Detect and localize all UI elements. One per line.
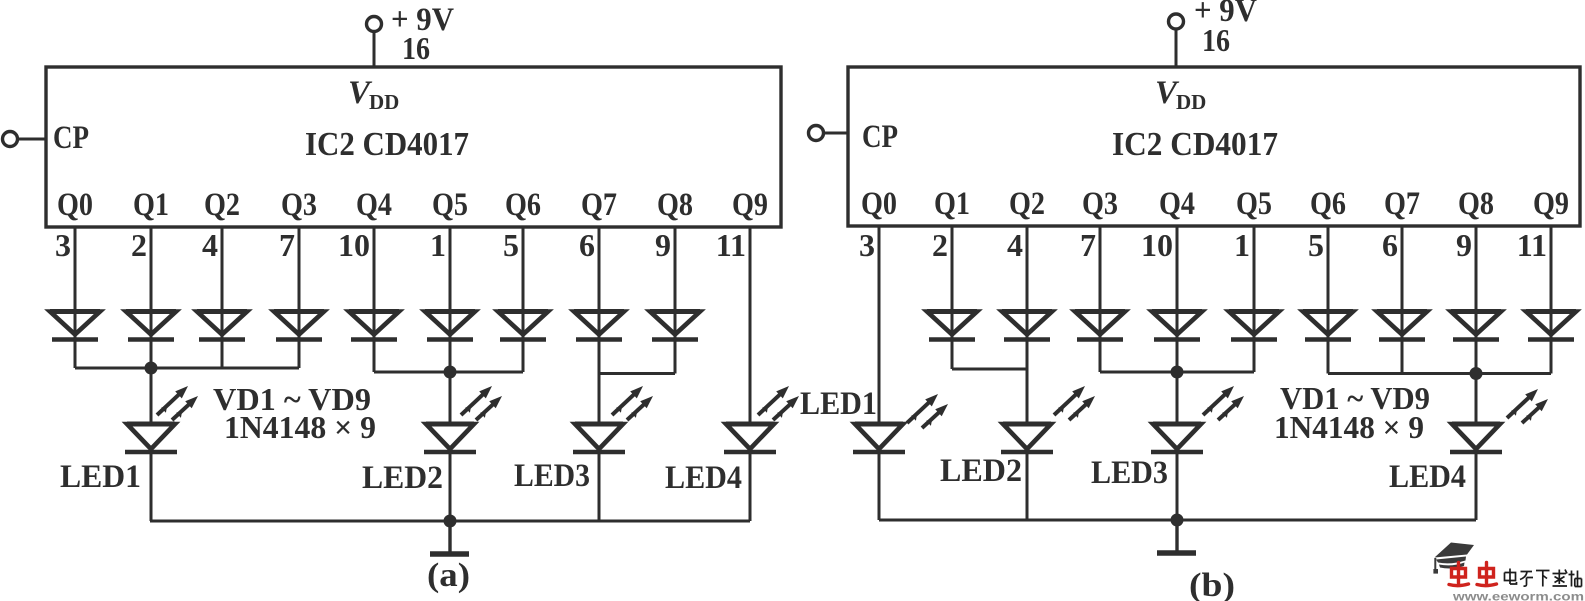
diode VD1 (a) (50, 312, 100, 340)
wire LED4 cathode (a) (749, 452, 752, 521)
wire LED2 cathode (b) (1026, 452, 1029, 520)
svg-text:1: 1 (430, 227, 446, 263)
svg-text:Q5: Q5 (1236, 186, 1272, 222)
CP input terminal (a) (3, 132, 18, 147)
wire Q8 (a) (674, 227, 677, 374)
wire Q3 (b) (1099, 226, 1102, 372)
svg-text:CP: CP (53, 120, 89, 156)
svg-text:11: 11 (716, 227, 746, 263)
ground (b) (1157, 520, 1196, 553)
svg-text:Q3: Q3 (281, 187, 317, 223)
diode VD5 (b) (1229, 312, 1279, 340)
wire Q9 (b) (1550, 226, 1553, 374)
svg-text:IC2 CD4017: IC2 CD4017 (1112, 126, 1278, 163)
svg-text:1N4148 × 9: 1N4148 × 9 (224, 409, 376, 445)
junction dot (a) (145, 362, 158, 375)
diode VD6 (a) (425, 312, 475, 340)
diode VD9 (b) (1526, 312, 1576, 340)
svg-text:Q4: Q4 (1159, 186, 1195, 222)
wire diode-group bus (b) (1328, 372, 1551, 375)
svg-text:1N4148 × 9: 1N4148 × 9 (1274, 409, 1424, 445)
wire supply to pin16 (b) (1175, 29, 1178, 68)
svg-text:LED4: LED4 (665, 460, 742, 496)
wire Q4 (b) (1176, 226, 1179, 424)
wire Q6 (a) (522, 227, 525, 372)
wire Q8 (b) (1475, 226, 1478, 424)
LED4 (a) (724, 424, 776, 452)
svg-text:10: 10 (1141, 227, 1173, 263)
wire CP input (a) (18, 138, 47, 141)
svg-text:Q1: Q1 (934, 186, 970, 222)
IC2 CD4017 box (a) (46, 67, 781, 227)
watermark text dianzi xiazaizhan (1505, 569, 1582, 587)
svg-text:IC2 CD4017: IC2 CD4017 (305, 126, 469, 163)
wire diode-group bus (a) (75, 367, 299, 370)
svg-text:Q9: Q9 (732, 187, 768, 223)
wire Q7 (a) (598, 227, 601, 424)
svg-text:2: 2 (131, 227, 147, 263)
LED4 emission arrows (a) (758, 386, 799, 420)
LED2 (a) (424, 424, 476, 452)
LED4 (b) (1450, 424, 1502, 452)
svg-text:DD: DD (369, 90, 399, 114)
wire diode-group bus (b) (1100, 371, 1254, 374)
svg-text:1: 1 (1234, 227, 1250, 263)
svg-text:LED3: LED3 (514, 458, 590, 494)
svg-text:(b): (b) (1189, 567, 1235, 601)
wire CP input (b) (824, 132, 849, 135)
svg-text:5: 5 (503, 227, 519, 263)
svg-text:LED2: LED2 (362, 460, 443, 496)
wire Q1 (a) (150, 227, 153, 424)
LED2 emission arrows (b) (1054, 386, 1095, 420)
wire Q3 (a) (298, 227, 301, 368)
LED2 (b) (1001, 424, 1053, 452)
LED1 emission arrows (a) (157, 386, 198, 420)
LED3 (b) (1151, 424, 1203, 452)
svg-text:Q4: Q4 (356, 187, 392, 223)
wire diode-group bus (a) (374, 371, 523, 374)
svg-text:6: 6 (1382, 227, 1398, 263)
svg-text:Q8: Q8 (657, 187, 693, 223)
svg-text:(a): (a) (427, 557, 470, 594)
svg-text:Q7: Q7 (581, 187, 617, 223)
+9V supply terminal (b) (1169, 14, 1184, 29)
wire LED1 cathode (a) (150, 452, 153, 521)
diode VD5 (a) (349, 312, 399, 340)
wire Q2 (a) (221, 227, 224, 368)
wire Q7 (b) (1401, 226, 1404, 374)
svg-text:7: 7 (1080, 227, 1096, 263)
svg-text:DD: DD (1176, 90, 1206, 114)
svg-text:Q7: Q7 (1384, 186, 1420, 222)
svg-text:Q0: Q0 (861, 186, 897, 222)
LED3 emission arrows (a) (612, 386, 653, 420)
diode VD4 (a) (274, 312, 324, 340)
wire common cathode bus (b) (879, 519, 1476, 522)
svg-text:6: 6 (579, 227, 595, 263)
svg-text:Q3: Q3 (1082, 186, 1118, 222)
+9V supply terminal (a) (367, 17, 382, 32)
diode VD7 (b) (1377, 312, 1427, 340)
LED1 (b) (853, 424, 905, 452)
diode VD2 (b) (1002, 312, 1052, 340)
LED3 emission arrows (b) (1203, 386, 1244, 420)
svg-text:16: 16 (402, 30, 430, 66)
svg-text:Q0: Q0 (57, 187, 93, 223)
svg-text:11: 11 (1517, 227, 1547, 263)
wire Q1 (b) (951, 226, 954, 369)
diode VD3 (a) (197, 312, 247, 340)
svg-text:Q1: Q1 (133, 187, 169, 223)
diode VD4 (b) (1152, 312, 1202, 340)
svg-text:LED2: LED2 (940, 453, 1022, 489)
diode VD8 (b) (1451, 312, 1501, 340)
svg-text:16: 16 (1202, 22, 1230, 58)
LED1 (a) (125, 424, 177, 452)
svg-text:Q2: Q2 (204, 187, 240, 223)
svg-text:10: 10 (338, 227, 370, 263)
svg-text:Q5: Q5 (432, 187, 468, 223)
svg-text:3: 3 (55, 227, 71, 263)
svg-text:LED4: LED4 (1389, 459, 1466, 495)
LED1 emission arrows (b) (907, 394, 948, 428)
svg-text:CP: CP (862, 119, 898, 155)
svg-text:3: 3 (859, 227, 875, 263)
svg-text:4: 4 (1007, 227, 1023, 263)
wire Q4 (a) (373, 227, 376, 372)
wire Q2 (b) (1026, 226, 1029, 424)
junction dot (b) (1470, 367, 1483, 380)
svg-text:Q8: Q8 (1458, 186, 1494, 222)
wire LED2 cathode (a) (449, 452, 452, 521)
diode VD1 (b) (927, 312, 977, 340)
wire Q0 (b) (878, 226, 881, 424)
svg-text:LED1: LED1 (60, 459, 141, 495)
wire diode-group bus (a) (599, 372, 675, 375)
wire Q5 (a) (449, 227, 452, 424)
wire Q0 (a) (74, 227, 77, 368)
diode VD3 (b) (1075, 312, 1125, 340)
LED3 (a) (573, 424, 625, 452)
junction dot (a) (444, 366, 457, 379)
watermark chongchong red characters (1449, 563, 1497, 586)
LED2 emission arrows (a) (461, 386, 502, 420)
svg-text:2: 2 (932, 227, 948, 263)
junction dot at ground (b) (1171, 514, 1184, 527)
CP input terminal (b) (809, 126, 824, 141)
svg-text:9: 9 (655, 227, 671, 263)
svg-text:LED3: LED3 (1091, 455, 1168, 491)
svg-text:www.eeworm.com: www.eeworm.com (1452, 592, 1584, 601)
wire LED3 cathode (b) (1176, 452, 1179, 520)
svg-text:4: 4 (202, 227, 218, 263)
svg-text:7: 7 (279, 227, 295, 263)
ground (a) (430, 521, 469, 554)
wire Q5 (b) (1253, 226, 1256, 372)
IC2 CD4017 box (b) (848, 67, 1580, 226)
svg-text:Q6: Q6 (505, 187, 541, 223)
diode VD9 (a) (650, 312, 700, 340)
wire LED4 cathode (b) (1475, 452, 1478, 520)
wire supply to pin16 (a) (373, 31, 376, 67)
watermark graduation cap (1433, 543, 1474, 574)
svg-text:Q2: Q2 (1009, 186, 1045, 222)
svg-text:9: 9 (1456, 227, 1472, 263)
diode VD2 (a) (126, 312, 176, 340)
svg-text:Q9: Q9 (1533, 186, 1569, 222)
diode VD7 (a) (498, 312, 548, 340)
svg-text:Q6: Q6 (1310, 186, 1346, 222)
wire LED1 cathode (b) (878, 452, 881, 520)
junction dot at ground (a) (444, 515, 457, 528)
wire common cathode bus (a) (150, 520, 750, 523)
diode VD8 (a) (574, 312, 624, 340)
wire Q9 (a) (749, 227, 752, 424)
wire diode-group bus (b) (952, 368, 1027, 371)
LED4 emission arrows (b) (1507, 389, 1548, 423)
svg-text:LED1: LED1 (800, 386, 877, 422)
diode VD6 (b) (1303, 312, 1353, 340)
svg-text:5: 5 (1308, 227, 1324, 263)
wire Q6 (b) (1327, 226, 1330, 374)
junction dot (b) (1171, 366, 1184, 379)
wire LED3 cathode (a) (598, 452, 601, 521)
